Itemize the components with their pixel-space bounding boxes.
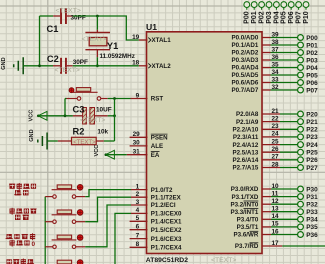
wire: button common left rail: [44, 197, 46, 264]
svg-text:P1.7/CEX4: P1.7/CEX4: [151, 245, 182, 252]
pin 3 stub (P1.2): [131, 204, 148, 206]
pin 19 stub (XTAL1): [139, 39, 148, 41]
svg-text:37: 37: [272, 46, 280, 53]
svg-text:P3.5/T1: P3.5/T1: [237, 224, 259, 231]
pin 10 stub+wire (P3.0): [262, 188, 271, 190]
svg-text:P21: P21: [306, 119, 318, 126]
svg-text:34: 34: [272, 69, 280, 76]
svg-text:P2.0/A8: P2.0/A8: [236, 111, 259, 118]
svg-text:Y1: Y1: [107, 41, 118, 51]
svg-text:P3.3/INT1: P3.3/INT1: [230, 209, 258, 216]
svg-text:P1.3/CEX0: P1.3/CEX0: [151, 211, 182, 218]
svg-text:EA: EA: [151, 152, 160, 159]
svg-text:P05: P05: [281, 11, 288, 24]
svg-text:14: 14: [272, 213, 280, 220]
svg-text:P07: P07: [306, 87, 318, 94]
terminal P32: [298, 201, 304, 207]
svg-text:P00: P00: [244, 11, 251, 24]
svg-text:P02: P02: [259, 11, 266, 24]
terminal P03: [298, 57, 304, 63]
svg-text:C1: C1: [47, 24, 59, 34]
pin 25 stub+wire (P2.4): [262, 144, 280, 146]
terminal header P10: [303, 2, 309, 8]
terminal header P06: [288, 2, 294, 8]
svg-text:GND: GND: [1, 57, 7, 69]
svg-text:27: 27: [272, 154, 280, 161]
wire: button K1 to P1.0: [85, 190, 131, 197]
svg-text:8: 8: [136, 241, 140, 248]
terminal P27: [298, 165, 304, 171]
pin 18 stub (XTAL2): [139, 65, 148, 67]
svg-text:P36: P36: [306, 232, 318, 239]
svg-text:GND: GND: [29, 129, 35, 141]
pin 13 stub+wire (P3.3): [262, 211, 271, 213]
svg-text:16: 16: [272, 228, 280, 235]
wire: VCC to EA: [106, 154, 127, 156]
svg-text:33: 33: [272, 76, 280, 83]
svg-text:22: 22: [272, 115, 280, 122]
svg-text:9: 9: [136, 92, 140, 99]
svg-text:P0.7/AD7: P0.7/AD7: [231, 87, 258, 94]
svg-text:ALE: ALE: [151, 143, 163, 150]
svg-text:36: 36: [272, 54, 280, 61]
svg-text:XTAL2: XTAL2: [152, 63, 172, 70]
terminal header P07: [296, 2, 302, 8]
svg-text:P2.4/A12: P2.4/A12: [232, 142, 258, 149]
ground symbol (oscillator): [14, 57, 24, 74]
svg-text:<TEXT>: <TEXT>: [73, 140, 96, 146]
pin 9 stub (RST): [131, 98, 148, 100]
pin 31 stub (EA): [127, 154, 148, 156]
capacitor C3 (electrolytic 10UF): [73, 115, 83, 117]
svg-text:<TEXT>: <TEXT>: [80, 117, 105, 124]
terminal P22: [298, 126, 304, 132]
svg-text:5: 5: [136, 215, 140, 222]
svg-text:P22: P22: [306, 127, 318, 134]
svg-text:24: 24: [272, 131, 280, 138]
terminal header P00: [244, 2, 250, 8]
terminal header P01: [251, 2, 257, 8]
wire: R2 right to rail: [104, 140, 115, 142]
terminal P31: [298, 194, 304, 200]
svg-text:RST: RST: [151, 96, 164, 103]
svg-text:P24: P24: [306, 142, 318, 149]
svg-text:P07: P07: [296, 11, 303, 24]
svg-text:12: 12: [272, 198, 280, 205]
wire: RST rail down: [114, 99, 116, 142]
svg-text:30: 30: [133, 140, 141, 147]
svg-text:P05: P05: [306, 72, 318, 79]
terminal P34: [298, 216, 304, 222]
svg-text:P04: P04: [306, 65, 318, 72]
wire: button K2 to P1.1: [85, 197, 131, 222]
svg-text:P0.1/AD1: P0.1/AD1: [231, 42, 258, 49]
terminal P02: [298, 50, 304, 56]
svg-text:P1.4/CEX1: P1.4/CEX1: [151, 219, 182, 226]
svg-text:P2.5/A13: P2.5/A13: [232, 149, 258, 156]
svg-text:P30: P30: [306, 186, 318, 193]
push button K1: [45, 196, 53, 198]
svg-text:4: 4: [136, 207, 140, 214]
svg-text:21: 21: [272, 108, 280, 115]
pin 29 stub (PSEN): [130, 136, 148, 138]
junction node at crystal top: [96, 15, 99, 18]
svg-text:P0.0/AD0: P0.0/AD0: [231, 35, 258, 42]
svg-text:P1.0/T2: P1.0/T2: [151, 187, 173, 194]
svg-text:P31: P31: [306, 194, 318, 201]
svg-text:P23: P23: [306, 134, 318, 141]
terminal P21: [298, 119, 304, 125]
push button K3: [45, 246, 53, 248]
capacitor C1: [53, 15, 60, 17]
pin 37 stub+wire (P0.2): [262, 52, 271, 54]
pin 24 stub+wire (P2.3): [262, 136, 280, 138]
terminal P23: [298, 134, 304, 140]
svg-text:P04: P04: [273, 11, 280, 24]
svg-text:P3.1/TXD: P3.1/TXD: [231, 194, 258, 201]
svg-text:0: 0: [32, 241, 36, 248]
svg-text:2: 2: [136, 191, 140, 198]
svg-text:P25: P25: [306, 150, 318, 157]
ground symbol (R2): [38, 133, 47, 150]
svg-text:P00: P00: [306, 35, 318, 42]
svg-text:25: 25: [272, 138, 280, 145]
pin 12 stub+wire (P3.2): [262, 203, 271, 205]
svg-text:35: 35: [272, 61, 280, 68]
pin 26 stub+wire (P2.5): [262, 151, 280, 153]
svg-text:P3.7/RD: P3.7/RD: [235, 243, 259, 250]
terminal P26: [298, 157, 304, 163]
svg-text:P0.3/AD3: P0.3/AD3: [231, 57, 258, 64]
svg-text:15: 15: [272, 221, 280, 228]
pin 39 stub+wire (P0.0): [262, 37, 271, 39]
wire: riser button-left to VCC row: [64, 99, 66, 116]
junction node rail/C2 row: [38, 64, 41, 67]
push button K2: [45, 221, 53, 223]
svg-text:10k: 10k: [97, 129, 108, 136]
pin 27 stub+wire (P2.6): [262, 159, 280, 161]
junction node C3/rail: [113, 114, 116, 117]
pin 14 stub+wire (P3.4): [262, 218, 271, 220]
wire: button K4 to P1.3: [85, 213, 131, 264]
svg-text:P2.3/A11: P2.3/A11: [233, 134, 259, 141]
svg-text:P06: P06: [306, 80, 318, 87]
resistor R2 10k: [58, 140, 72, 142]
terminal P25: [298, 149, 304, 155]
svg-text:13: 13: [272, 206, 280, 213]
svg-text:P27: P27: [306, 165, 318, 172]
terminal P04: [298, 65, 304, 71]
pin 11 stub+wire (P3.1): [262, 196, 271, 198]
svg-text:P10: P10: [303, 11, 310, 24]
annotation text block 2 (red hanzi): [10, 209, 15, 214]
svg-text:P2.1/A9: P2.1/A9: [236, 119, 259, 126]
svg-text:3: 3: [136, 199, 140, 206]
svg-text:P1.6/CEX3: P1.6/CEX3: [151, 236, 182, 243]
wire: C1 left to rail: [40, 15, 54, 17]
pin 2 stub (P1.1): [131, 196, 148, 198]
terminal P05: [298, 72, 304, 78]
pin 30 stub (ALE): [130, 145, 148, 147]
svg-text:C3: C3: [73, 104, 85, 114]
svg-text:XTAL1: XTAL1: [152, 37, 172, 44]
svg-text:<TEXT>: <TEXT>: [82, 36, 107, 43]
svg-text:38: 38: [272, 39, 280, 46]
svg-text:P06: P06: [288, 11, 295, 24]
pin 22 stub+wire (P2.1): [262, 121, 280, 123]
svg-text:29: 29: [133, 131, 141, 138]
wire: C3 right to rail: [108, 115, 115, 117]
pin 33 stub+wire (P0.6): [262, 82, 271, 84]
svg-text:P3.4/T0: P3.4/T0: [237, 217, 259, 224]
pin 36 stub+wire (P0.3): [262, 59, 271, 61]
pin 17 stub+wire (P3.7): [262, 245, 282, 247]
svg-text:<TEXT>: <TEXT>: [56, 8, 81, 15]
svg-text:P1.1/T2EX: P1.1/T2EX: [151, 194, 182, 201]
svg-text:30PF: 30PF: [73, 59, 88, 66]
svg-text:P3.0/RXD: P3.0/RXD: [231, 186, 259, 193]
svg-text:VCC: VCC: [94, 145, 100, 157]
pin 8 stub (P1.7): [130, 246, 148, 248]
svg-text:P0.5/AD5: P0.5/AD5: [231, 72, 258, 79]
svg-text:P33: P33: [306, 209, 318, 216]
terminal P01: [298, 42, 304, 48]
svg-text:28: 28: [272, 161, 280, 168]
junction node RST/rail: [113, 97, 116, 100]
svg-text:<TEXT>: <TEXT>: [211, 257, 236, 264]
svg-text:P0.4/AD4: P0.4/AD4: [231, 65, 258, 72]
pin 6 stub (P1.5): [130, 229, 148, 231]
pin 1 stub (P1.0): [131, 189, 148, 191]
wire: VCC to C3: [38, 115, 73, 117]
IC U1 (AT89C51RD2 microcontroller) body: [147, 32, 263, 254]
svg-text:C2: C2: [47, 54, 59, 64]
svg-text:R2: R2: [73, 127, 85, 137]
junction node at crystal bottom: [96, 64, 99, 67]
svg-text:P35: P35: [306, 224, 318, 231]
power arrow VCC (EA pin): [106, 150, 115, 159]
pin 28 stub+wire (P2.7): [262, 167, 280, 169]
svg-text:11: 11: [272, 190, 279, 197]
terminal P20: [298, 111, 304, 117]
terminal header P04: [274, 2, 280, 8]
terminal P33: [298, 209, 304, 215]
terminal header P02: [259, 2, 265, 8]
terminal P07: [298, 87, 304, 93]
wire: button to RST: [108, 98, 131, 100]
svg-text:P03: P03: [306, 57, 318, 64]
crystal Y1: [96, 30, 98, 33]
svg-text:P3.2/INT0: P3.2/INT0: [230, 201, 258, 208]
svg-text:P26: P26: [306, 157, 318, 164]
pin 21 stub+wire (P2.0): [262, 113, 280, 115]
terminal P24: [298, 142, 304, 148]
svg-text:32: 32: [272, 84, 280, 91]
terminal P30: [298, 186, 304, 192]
terminal P00: [298, 35, 304, 41]
svg-text:39: 39: [272, 31, 280, 38]
svg-text:7: 7: [136, 232, 140, 239]
pin 7 stub (P1.6): [130, 238, 148, 240]
pin 35 stub+wire (P0.4): [262, 67, 271, 69]
pin 15 stub+wire (P3.5): [262, 226, 271, 228]
junction node button riser / VCC wire: [64, 114, 67, 117]
svg-text:31: 31: [133, 149, 141, 156]
pin 32 stub+wire (P0.7): [262, 89, 271, 91]
wire: crystal bottom riser: [96, 57, 98, 66]
svg-text:P2.7/A15: P2.7/A15: [232, 165, 258, 172]
svg-text:P1.2/ECI: P1.2/ECI: [151, 202, 176, 209]
svg-text:23: 23: [272, 123, 280, 130]
svg-text:P1.5/CEX2: P1.5/CEX2: [151, 227, 182, 234]
svg-text:17: 17: [272, 240, 280, 247]
terminal P35: [298, 224, 304, 230]
wire: gnd to C2: [23, 65, 53, 67]
svg-text:P2.2/A10: P2.2/A10: [232, 127, 258, 134]
pin 23 stub+wire (P2.2): [262, 128, 280, 130]
push button (reset): [67, 98, 78, 100]
terminal header P05: [281, 2, 287, 8]
wire: button K3 to P1.2: [85, 205, 131, 247]
svg-text:U1: U1: [146, 22, 157, 32]
svg-text:P32: P32: [306, 202, 318, 209]
svg-text:P02: P02: [306, 50, 318, 57]
pin 4 stub (P1.3): [131, 212, 148, 214]
terminal P36: [298, 232, 304, 238]
wire: left rail (C1 to C2 row): [39, 16, 41, 66]
svg-text:<TEXT>: <TEXT>: [55, 67, 80, 74]
wire: crystal top riser: [96, 16, 98, 30]
svg-text:P01: P01: [251, 11, 258, 24]
svg-text:6: 6: [136, 224, 140, 231]
pin 5 stub (P1.4): [130, 220, 148, 222]
svg-text:11.0592MHz: 11.0592MHz: [100, 53, 135, 60]
terminal P06: [298, 80, 304, 86]
terminal header P03: [266, 2, 272, 8]
svg-text:10: 10: [272, 183, 280, 190]
svg-text:P34: P34: [306, 217, 318, 224]
pin 16 stub+wire (P3.6): [262, 234, 271, 236]
pin 38 stub+wire (P0.1): [262, 44, 271, 46]
svg-text:P03: P03: [266, 11, 273, 24]
annotation text block 1 (red hanzi): [10, 184, 15, 189]
power arrow VCC (reset): [38, 111, 47, 120]
svg-text:PSEN: PSEN: [151, 135, 168, 142]
clock marks on XTAL pins: [148, 38, 151, 69]
svg-text:1: 1: [136, 183, 140, 190]
svg-text:10UF: 10UF: [96, 106, 112, 113]
svg-text:P3.6/WR: P3.6/WR: [234, 232, 259, 239]
svg-text:P0.2/AD2: P0.2/AD2: [231, 50, 258, 57]
capacitor C2: [53, 65, 60, 67]
annotation text block 3 (red hanzi): [7, 234, 12, 239]
annotation text block 4 (red hanzi, clipped): [7, 259, 12, 264]
wire: gnd to R2 left: [47, 140, 57, 142]
svg-text:P2.6/A14: P2.6/A14: [232, 157, 258, 164]
wire: C2 right to pin 18: [73, 65, 139, 67]
svg-text:VCC: VCC: [29, 110, 35, 122]
wire: C1 right to pin 19, down corner: [73, 16, 139, 40]
svg-text:P01: P01: [306, 42, 318, 49]
svg-text:26: 26: [272, 146, 280, 153]
svg-text:AT89C51RD2: AT89C51RD2: [146, 257, 188, 264]
svg-text:P0.6/AD6: P0.6/AD6: [231, 80, 258, 87]
svg-text:P20: P20: [306, 111, 318, 118]
pin 34 stub+wire (P0.5): [262, 74, 271, 76]
